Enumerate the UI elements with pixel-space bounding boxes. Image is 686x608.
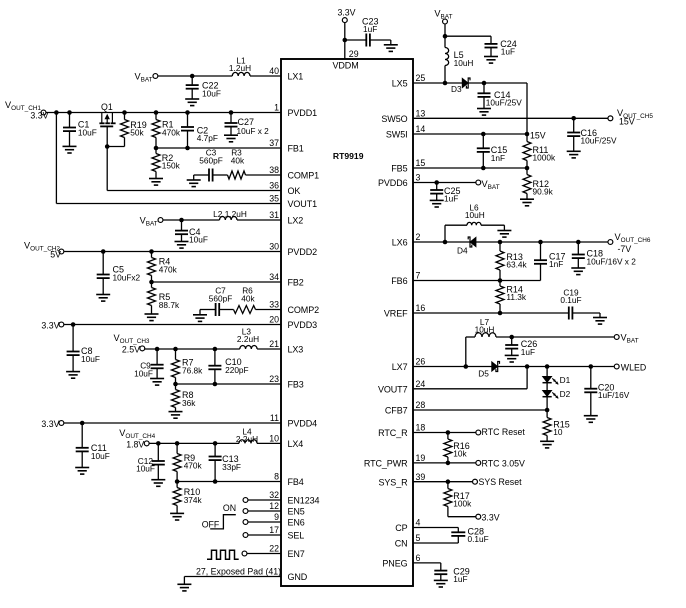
svg-text:1uF: 1uF bbox=[501, 46, 515, 56]
svg-text:SEL: SEL bbox=[288, 531, 305, 541]
svg-text:32: 32 bbox=[269, 490, 279, 500]
svg-text:VREF: VREF bbox=[384, 309, 408, 319]
svg-text:SYS_R: SYS_R bbox=[378, 477, 408, 487]
svg-text:RTC_PWR: RTC_PWR bbox=[364, 459, 408, 469]
svg-text:36: 36 bbox=[269, 181, 279, 191]
svg-text:21: 21 bbox=[269, 339, 279, 349]
svg-text:3.3V: 3.3V bbox=[337, 7, 355, 17]
svg-text:FB4: FB4 bbox=[288, 477, 304, 487]
svg-text:470k: 470k bbox=[162, 127, 181, 137]
svg-text:33pF: 33pF bbox=[222, 462, 241, 472]
svg-text:D2: D2 bbox=[560, 389, 571, 399]
svg-text:17: 17 bbox=[269, 525, 279, 535]
svg-text:36k: 36k bbox=[182, 398, 196, 408]
svg-text:10uF x 2: 10uF x 2 bbox=[237, 126, 270, 136]
svg-text:1.8V: 1.8V bbox=[126, 440, 144, 450]
svg-text:FB3: FB3 bbox=[288, 380, 304, 390]
svg-text:150k: 150k bbox=[162, 161, 181, 171]
svg-text:3.3V: 3.3V bbox=[41, 419, 59, 429]
svg-text:SYS Reset: SYS Reset bbox=[479, 477, 523, 487]
svg-text:31: 31 bbox=[269, 210, 279, 220]
svg-text:D5: D5 bbox=[478, 369, 489, 379]
svg-text:ON: ON bbox=[223, 503, 236, 513]
svg-text:34: 34 bbox=[269, 272, 279, 282]
svg-text:EN5: EN5 bbox=[288, 507, 305, 517]
svg-text:50k: 50k bbox=[130, 128, 144, 138]
svg-text:15V: 15V bbox=[619, 117, 635, 127]
svg-text:3.3V: 3.3V bbox=[30, 111, 48, 121]
svg-text:16: 16 bbox=[416, 303, 426, 313]
svg-text:COMP1: COMP1 bbox=[288, 171, 320, 181]
svg-text:6: 6 bbox=[416, 553, 421, 563]
svg-text:3: 3 bbox=[416, 173, 421, 183]
svg-text:OFF: OFF bbox=[202, 519, 220, 529]
svg-text:20: 20 bbox=[269, 315, 279, 325]
svg-text:76.8k: 76.8k bbox=[182, 365, 203, 375]
svg-text:0.1uF: 0.1uF bbox=[468, 534, 489, 544]
svg-text:10uH: 10uH bbox=[475, 325, 495, 335]
svg-text:WLED: WLED bbox=[621, 362, 646, 372]
svg-text:37: 37 bbox=[269, 138, 279, 148]
svg-text:10: 10 bbox=[269, 434, 279, 444]
svg-text:27, Exposed Pad (41): 27, Exposed Pad (41) bbox=[196, 566, 281, 576]
svg-text:4: 4 bbox=[416, 518, 421, 528]
svg-text:VDDM: VDDM bbox=[333, 61, 359, 71]
svg-text:LX3: LX3 bbox=[288, 345, 304, 355]
svg-text:OK: OK bbox=[288, 186, 301, 196]
svg-text:5: 5 bbox=[416, 533, 421, 543]
svg-text:L2 1.2uH: L2 1.2uH bbox=[213, 209, 247, 219]
svg-text:3.3V: 3.3V bbox=[482, 512, 500, 522]
svg-text:40: 40 bbox=[269, 66, 279, 76]
svg-text:0.1uF: 0.1uF bbox=[560, 295, 581, 305]
svg-text:RTC_R: RTC_R bbox=[378, 428, 408, 438]
svg-text:1uF: 1uF bbox=[444, 194, 458, 204]
svg-text:10uF: 10uF bbox=[91, 451, 110, 461]
svg-text:EN7: EN7 bbox=[288, 549, 305, 559]
svg-text:374k: 374k bbox=[184, 495, 203, 505]
svg-text:220pF: 220pF bbox=[225, 365, 249, 375]
svg-text:1uF: 1uF bbox=[363, 24, 377, 34]
svg-text:FB2: FB2 bbox=[288, 278, 304, 288]
svg-text:18: 18 bbox=[416, 423, 426, 433]
svg-text:COMP2: COMP2 bbox=[288, 305, 320, 315]
svg-text:28: 28 bbox=[416, 400, 426, 410]
svg-text:PVDD2: PVDD2 bbox=[288, 247, 318, 257]
svg-text:29: 29 bbox=[349, 49, 359, 59]
svg-text:FB6: FB6 bbox=[391, 276, 407, 286]
svg-text:33: 33 bbox=[269, 300, 279, 310]
svg-text:LX4: LX4 bbox=[288, 439, 304, 449]
svg-text:10uF/25V: 10uF/25V bbox=[486, 97, 522, 107]
svg-text:3.3V: 3.3V bbox=[41, 321, 59, 331]
svg-text:LX2: LX2 bbox=[288, 216, 304, 226]
svg-text:-7V: -7V bbox=[618, 244, 632, 254]
svg-text:RT9919: RT9919 bbox=[333, 151, 364, 161]
svg-text:23: 23 bbox=[269, 374, 279, 384]
svg-text:CP: CP bbox=[395, 523, 407, 533]
svg-text:CFB7: CFB7 bbox=[385, 406, 408, 416]
svg-text:10: 10 bbox=[553, 427, 563, 437]
svg-text:2.2uH: 2.2uH bbox=[236, 434, 258, 444]
svg-text:D1: D1 bbox=[560, 375, 571, 385]
svg-text:40k: 40k bbox=[241, 293, 255, 303]
svg-text:10uF: 10uF bbox=[189, 235, 208, 245]
svg-text:39: 39 bbox=[416, 472, 426, 482]
svg-text:1uF: 1uF bbox=[453, 574, 467, 584]
svg-text:PVDD1: PVDD1 bbox=[288, 108, 318, 118]
svg-text:PNEG: PNEG bbox=[382, 559, 407, 569]
svg-text:1nF: 1nF bbox=[549, 259, 563, 269]
svg-text:PVDD3: PVDD3 bbox=[288, 320, 318, 330]
svg-text:SW5O: SW5O bbox=[381, 114, 407, 124]
svg-text:VOUT1: VOUT1 bbox=[288, 199, 318, 209]
svg-text:11.3k: 11.3k bbox=[506, 292, 527, 302]
svg-text:1.2uH: 1.2uH bbox=[229, 63, 251, 73]
svg-text:88.7k: 88.7k bbox=[159, 300, 180, 310]
svg-text:25: 25 bbox=[416, 73, 426, 83]
svg-text:EN6: EN6 bbox=[288, 518, 305, 528]
svg-text:RTC Reset: RTC Reset bbox=[482, 427, 526, 437]
svg-text:10uF: 10uF bbox=[78, 127, 97, 137]
svg-text:12: 12 bbox=[269, 501, 279, 511]
svg-text:100k: 100k bbox=[453, 499, 472, 509]
svg-text:7: 7 bbox=[416, 271, 421, 281]
svg-text:1uF: 1uF bbox=[521, 347, 535, 357]
svg-text:13: 13 bbox=[416, 109, 426, 119]
svg-text:LX5: LX5 bbox=[392, 79, 408, 89]
svg-text:PVDD4: PVDD4 bbox=[288, 419, 318, 429]
svg-text:24: 24 bbox=[416, 379, 426, 389]
svg-text:10uH: 10uH bbox=[454, 58, 474, 68]
svg-text:RTC 3.05V: RTC 3.05V bbox=[482, 458, 525, 468]
svg-text:10uF/16V x 2: 10uF/16V x 2 bbox=[587, 257, 637, 267]
svg-text:8: 8 bbox=[274, 472, 279, 482]
svg-text:9: 9 bbox=[274, 512, 279, 522]
svg-text:470k: 470k bbox=[184, 461, 203, 471]
svg-text:90.9k: 90.9k bbox=[533, 187, 554, 197]
svg-text:30: 30 bbox=[269, 242, 279, 252]
svg-text:FB5: FB5 bbox=[391, 164, 407, 174]
svg-text:10uFx2: 10uFx2 bbox=[113, 272, 141, 282]
svg-text:40k: 40k bbox=[231, 155, 245, 165]
svg-text:63.4k: 63.4k bbox=[506, 260, 527, 270]
svg-text:22: 22 bbox=[269, 544, 279, 554]
svg-text:2: 2 bbox=[416, 232, 421, 242]
svg-text:10uH: 10uH bbox=[465, 210, 485, 220]
svg-text:15: 15 bbox=[416, 158, 426, 168]
svg-text:4.7pF: 4.7pF bbox=[197, 133, 218, 143]
svg-text:VOUT7: VOUT7 bbox=[378, 384, 408, 394]
svg-text:14: 14 bbox=[416, 124, 426, 134]
svg-text:2.2uH: 2.2uH bbox=[237, 334, 259, 344]
svg-text:15V: 15V bbox=[530, 131, 546, 141]
svg-text:560pF: 560pF bbox=[199, 155, 223, 165]
svg-text:CN: CN bbox=[395, 539, 408, 549]
svg-text:10uF: 10uF bbox=[136, 464, 155, 474]
svg-text:D4: D4 bbox=[457, 245, 468, 255]
svg-text:1: 1 bbox=[274, 103, 279, 113]
svg-text:SW5I: SW5I bbox=[386, 130, 408, 140]
svg-text:GND: GND bbox=[288, 572, 308, 582]
svg-text:2.5V: 2.5V bbox=[122, 345, 140, 355]
svg-text:1000k: 1000k bbox=[533, 153, 556, 163]
svg-text:1uF/16V: 1uF/16V bbox=[598, 390, 630, 400]
svg-text:EN1234: EN1234 bbox=[288, 496, 320, 506]
svg-text:1nF: 1nF bbox=[491, 153, 505, 163]
svg-text:26: 26 bbox=[416, 357, 426, 367]
svg-text:LX1: LX1 bbox=[288, 72, 304, 82]
svg-text:PVDD6: PVDD6 bbox=[378, 178, 408, 188]
svg-text:5V: 5V bbox=[50, 249, 61, 259]
svg-text:11: 11 bbox=[270, 413, 279, 423]
svg-text:10uF: 10uF bbox=[202, 88, 221, 98]
svg-text:19: 19 bbox=[416, 453, 426, 463]
svg-text:35: 35 bbox=[269, 194, 279, 204]
svg-text:D3: D3 bbox=[451, 84, 462, 94]
svg-text:10uF/25V: 10uF/25V bbox=[581, 136, 617, 146]
svg-text:10k: 10k bbox=[453, 449, 467, 459]
svg-text:Q1: Q1 bbox=[101, 102, 113, 112]
svg-text:10uF: 10uF bbox=[81, 354, 100, 364]
svg-text:470k: 470k bbox=[159, 264, 178, 274]
svg-text:LX6: LX6 bbox=[392, 238, 408, 248]
svg-text:10uF: 10uF bbox=[134, 368, 153, 378]
svg-text:FB1: FB1 bbox=[288, 144, 304, 154]
svg-text:560pF: 560pF bbox=[209, 293, 233, 303]
svg-text:38: 38 bbox=[269, 165, 279, 175]
svg-text:LX7: LX7 bbox=[392, 362, 408, 372]
